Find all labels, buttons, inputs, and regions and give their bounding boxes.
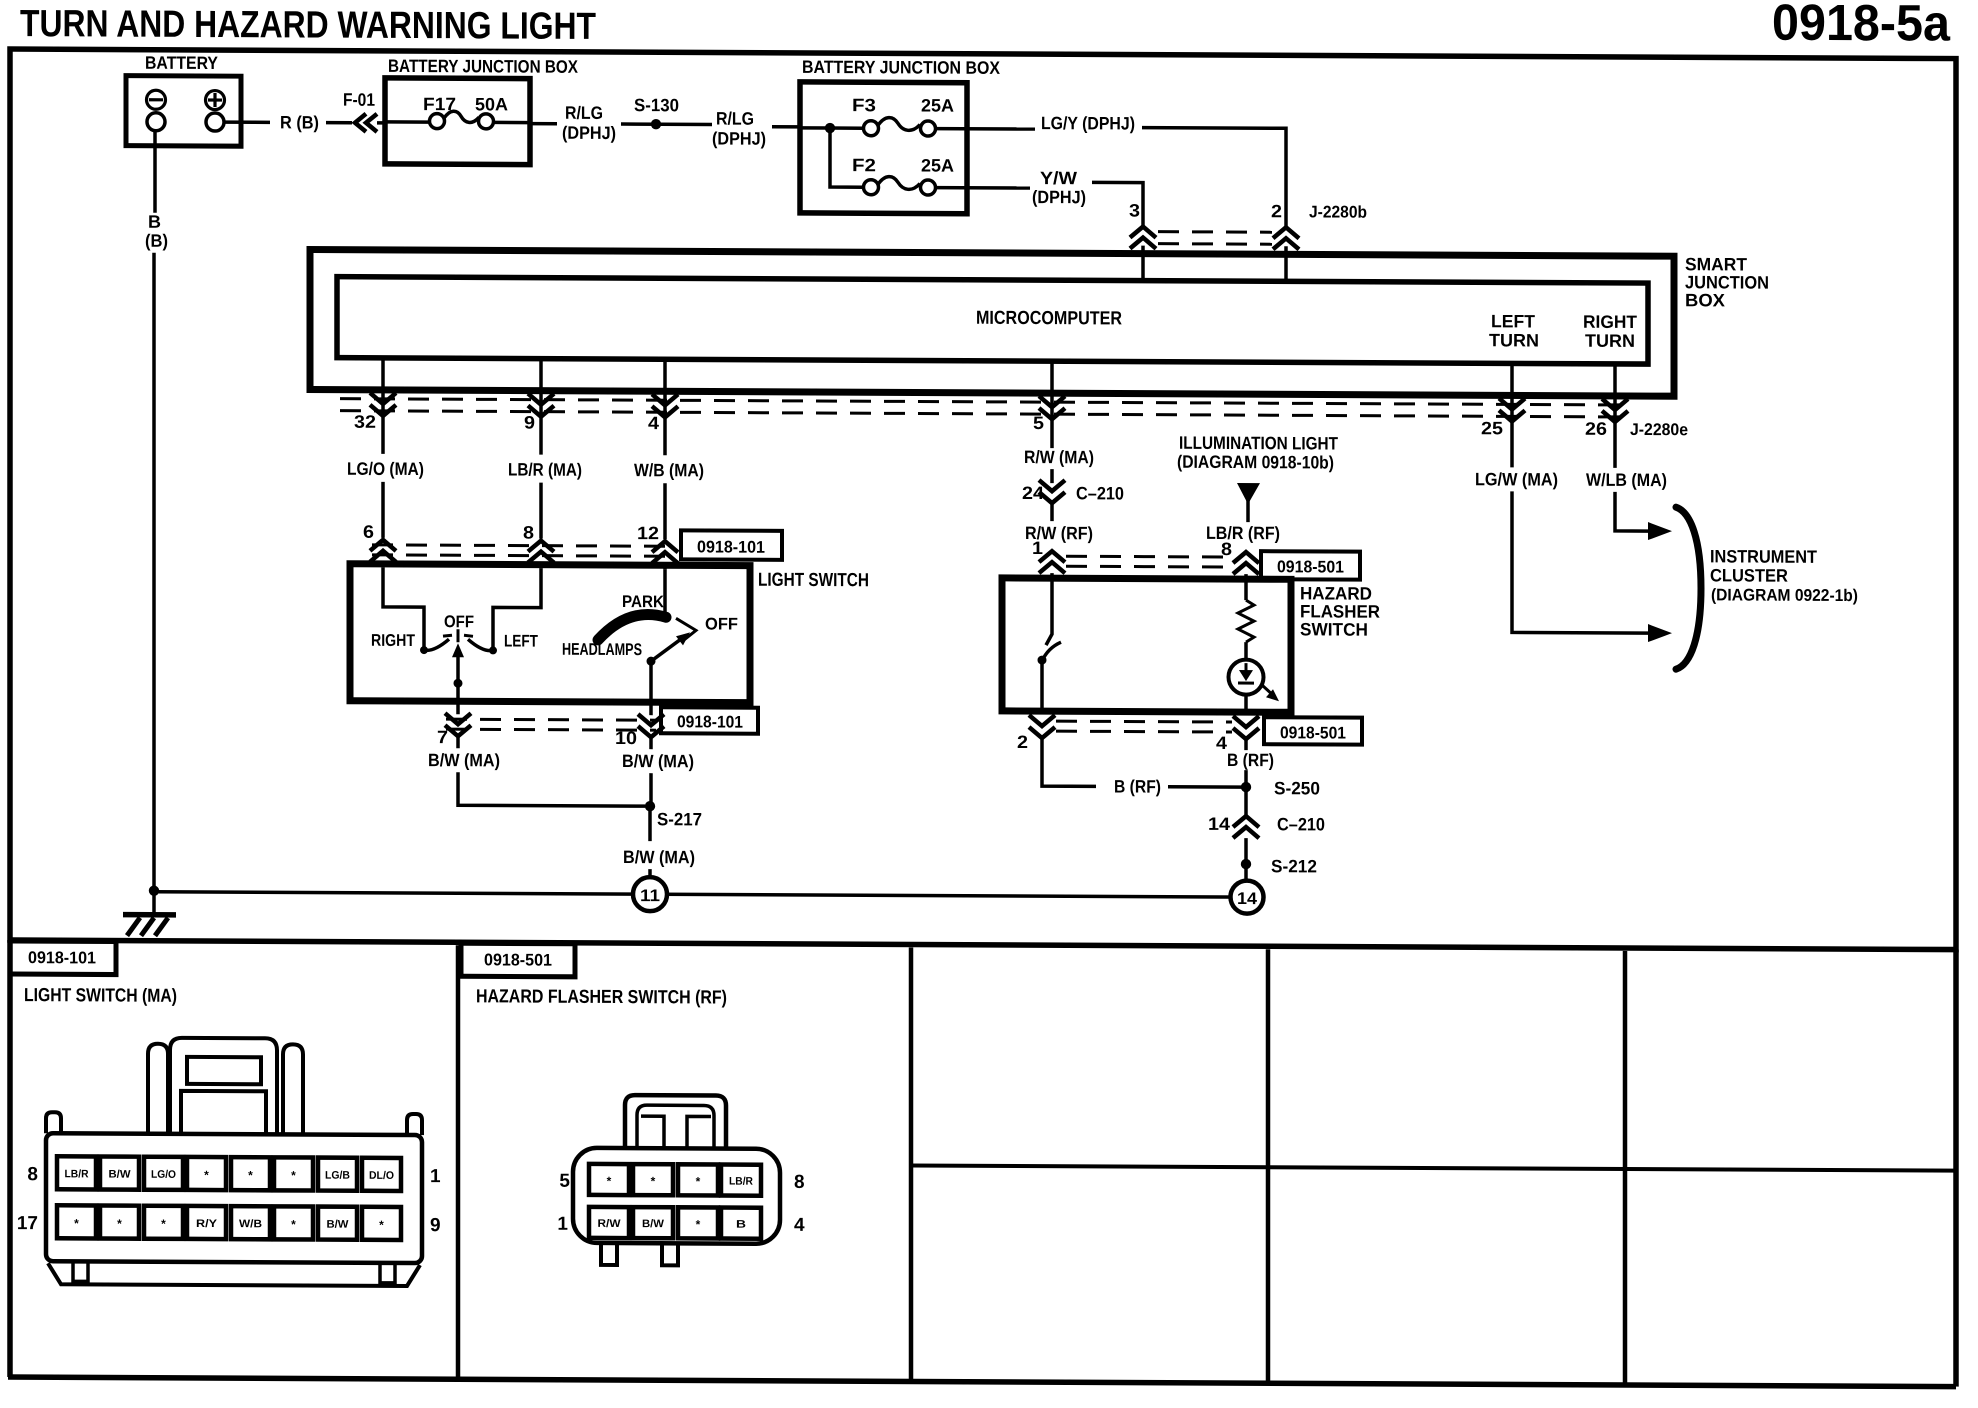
svg-text:*: * [74, 1216, 79, 1230]
ref box 0918-501 bottom band [461, 943, 575, 977]
wire LG/Y to pin 2 corner [1142, 128, 1286, 229]
svg-text:B/W: B/W [108, 1169, 131, 1181]
connector pin 8 chevrons top [1233, 552, 1259, 574]
wire lever to box bottom [649, 661, 653, 705]
svg-text:W/LB (MA): W/LB (MA) [1586, 470, 1667, 490]
hazard switch arm [1042, 642, 1061, 661]
svg-text:SWITCH: SWITCH [1300, 619, 1368, 639]
svg-text:*: * [248, 1168, 253, 1182]
SJB pin 25 chevrons [1499, 398, 1525, 421]
ground bus wire [154, 892, 1247, 897]
svg-text:11: 11 [640, 886, 660, 905]
svg-text:R/LG: R/LG [716, 109, 754, 129]
wire W/LB down to cluster [1615, 492, 1650, 531]
fuse F17 left terminal [430, 114, 445, 129]
SJB pin 9 chevrons [528, 394, 554, 417]
svg-text:*: * [696, 1217, 701, 1231]
svg-text:LB/R: LB/R [65, 1168, 89, 1180]
svg-text:*: * [607, 1174, 612, 1188]
wire Y/W to pin 3 corner [1092, 182, 1143, 227]
headlamp switch PARK-HEADLAMPS crescent [598, 614, 666, 640]
svg-text:OFF: OFF [705, 614, 738, 633]
wire SJB pin 32 stub [381, 358, 385, 416]
svg-text:7: 7 [437, 727, 448, 747]
arrow W/LB to cluster [1648, 522, 1672, 540]
turn switch lower junction dot [454, 679, 463, 688]
wire B/W from pin 10 to splice [649, 773, 653, 806]
svg-text:F2: F2 [852, 155, 876, 175]
wire label LB/R (MA) [539, 417, 543, 455]
MA connector left ear [46, 1112, 61, 1133]
svg-text:(B): (B) [145, 231, 168, 251]
wire pin 8 into hazard box [1244, 574, 1248, 582]
SJB pin 5 chevrons [1039, 396, 1065, 419]
RF connector pin row 1 [589, 1164, 761, 1196]
LED indicator circle [1229, 660, 1264, 695]
wire pin 8 into light switch [539, 563, 543, 569]
svg-text:5: 5 [559, 1171, 570, 1192]
wire F2 out of BJB2 [935, 186, 1030, 190]
instrument cluster bracket [1676, 507, 1701, 669]
svg-text:B: B [736, 1219, 746, 1231]
wire pin6 step inside light switch [383, 568, 424, 647]
svg-text:W/B: W/B [239, 1218, 262, 1230]
fuse F3 element [878, 118, 920, 131]
wire battery negative down upper [153, 131, 157, 213]
MA connector right prong [283, 1044, 303, 1134]
svg-text:LEFT: LEFT [1491, 311, 1535, 331]
turn switch right arc [468, 639, 493, 650]
svg-text:8: 8 [1221, 539, 1232, 559]
svg-text:8: 8 [27, 1164, 38, 1185]
svg-text:*: * [117, 1217, 122, 1231]
turn switch left arc [424, 639, 449, 650]
svg-text:MICROCOMPUTER: MICROCOMPUTER [976, 308, 1122, 330]
wire LG/O to connector [381, 482, 385, 538]
wire pin1 to switch contact [1046, 578, 1052, 645]
svg-text:14: 14 [1208, 814, 1230, 834]
svg-text:3: 3 [1129, 201, 1140, 221]
fuse F2 right terminal [921, 180, 936, 195]
headlamp switch wire 12 into PARK [663, 569, 667, 617]
fuse F17 element [444, 111, 479, 122]
main schematic border frame [10, 49, 1956, 950]
wire to ground circle 11 [648, 869, 652, 881]
MA connector lock window [187, 1057, 261, 1084]
svg-text:25A: 25A [921, 156, 954, 176]
bottom band divider x911 [909, 947, 914, 1381]
wire S-217 down [648, 806, 652, 841]
wire into fuse F17 [385, 120, 429, 124]
wire hazard switch to box bottom [1040, 660, 1044, 714]
microcomputer U1 box [337, 277, 1648, 364]
wire C-210 to R/W RF label [1050, 503, 1054, 521]
headlamp switch lever with arrowhead [651, 638, 682, 661]
svg-text:Y/W: Y/W [1040, 168, 1077, 188]
svg-text:LIGHT SWITCH: LIGHT SWITCH [758, 570, 869, 592]
smart junction box outer [310, 250, 1674, 397]
svg-text:8: 8 [794, 1172, 805, 1193]
headlamp switch OFF tick [676, 618, 696, 642]
wire SJB pin 5 stub [1050, 361, 1054, 419]
svg-text:F3: F3 [852, 95, 876, 115]
connector pin 7 chevrons [445, 713, 471, 736]
fuse F2 element [878, 177, 920, 190]
svg-text:4: 4 [1216, 733, 1227, 753]
svg-text:R/W: R/W [598, 1218, 622, 1230]
RF connector tab slot [641, 1116, 711, 1148]
wire pin 32 to label [381, 416, 385, 454]
svg-text:PARK: PARK [622, 592, 665, 611]
ground circle 11 [633, 877, 667, 911]
svg-text:LG/W (MA): LG/W (MA) [1475, 469, 1558, 489]
wire battery negative down lower [152, 253, 156, 891]
bottom band divider x1268 [1266, 949, 1271, 1383]
svg-text:HEADLAMPS: HEADLAMPS [562, 640, 642, 659]
svg-text:8: 8 [523, 523, 534, 543]
svg-text:25A: 25A [921, 96, 954, 116]
svg-text:LB/R: LB/R [729, 1176, 753, 1188]
wire pin 4 to splice [1244, 770, 1248, 792]
battery junction box 2 [800, 82, 967, 214]
light switch SW1 box [350, 564, 750, 703]
svg-text:R (B): R (B) [280, 112, 319, 132]
svg-text:(DIAGRAM 0918-10b): (DIAGRAM 0918-10b) [1177, 452, 1334, 473]
wire illumination down [1246, 496, 1250, 522]
svg-text:*: * [204, 1168, 209, 1182]
headlamp switch pivot dot [647, 657, 656, 666]
svg-text:24: 24 [1022, 483, 1044, 503]
svg-text:*: * [161, 1217, 166, 1231]
wire pin 2 into SJB [1284, 246, 1288, 282]
svg-text:C–210: C–210 [1076, 483, 1124, 503]
wire battery positive to R (B) label [224, 120, 270, 124]
wire F17 out to box edge [493, 121, 530, 125]
wire F3 out of BJB2 [935, 127, 1035, 131]
svg-text:S-212: S-212 [1271, 856, 1317, 876]
svg-text:TURN AND HAZARD WARNING LIGHT: TURN AND HAZARD WARNING LIGHT [20, 3, 596, 48]
connector pin 4 chevrons [1233, 716, 1259, 739]
svg-text:10: 10 [615, 728, 637, 748]
wire S-212 to ground circle 14 [1244, 864, 1248, 882]
svg-text:LG/O (MA): LG/O (MA) [347, 459, 424, 479]
wire down from junction to F2 [830, 128, 864, 187]
wire into BJB2 junction [800, 126, 830, 130]
svg-text:R/W (MA): R/W (MA) [1024, 447, 1094, 467]
svg-text:B/W (MA): B/W (MA) [428, 750, 500, 770]
svg-text:HAZARD FLASHER SWITCH (RF): HAZARD FLASHER SWITCH (RF) [476, 986, 727, 1008]
MA connector pin row 1 [57, 1156, 401, 1191]
connector pin 12 chevrons [652, 541, 678, 563]
svg-text:B (RF): B (RF) [1114, 776, 1161, 796]
splice S-217 dot [645, 801, 655, 811]
RF connector foot left [601, 1243, 617, 1265]
connector 0918-101 ref box bottom [661, 707, 758, 733]
wire pin 4 stub [1244, 739, 1248, 750]
svg-text:BATTERY JUNCTION BOX: BATTERY JUNCTION BOX [388, 56, 578, 77]
wire pin 10 to label [649, 737, 653, 749]
bottom band right border [1953, 950, 1959, 1387]
svg-text:DL/O: DL/O [369, 1170, 394, 1182]
svg-text:LG/B: LG/B [325, 1170, 350, 1182]
svg-text:LEFT: LEFT [504, 631, 538, 650]
svg-text:BATTERY: BATTERY [145, 53, 218, 73]
wire R/LG to battery junction box 2 [772, 125, 802, 129]
junction dot in BJB2 [825, 123, 835, 133]
arrow LG/W to cluster [1648, 624, 1672, 642]
svg-text:TURN: TURN [1489, 330, 1539, 350]
connector 0918-501 ref box top [1261, 551, 1360, 579]
svg-text:0918-5a: 0918-5a [1772, 0, 1951, 52]
svg-text:9: 9 [430, 1215, 441, 1236]
wire chevron to battery junction box [377, 121, 387, 125]
svg-text:LG/Y (DPHJ): LG/Y (DPHJ) [1041, 113, 1135, 133]
fuse F3 left terminal [864, 121, 879, 136]
fuse F3 right terminal [921, 121, 936, 136]
svg-text:BATTERY JUNCTION BOX: BATTERY JUNCTION BOX [802, 57, 1000, 78]
svg-text:RIGHT: RIGHT [371, 631, 416, 650]
turn switch wiper arrow [456, 654, 460, 684]
fuse F2 left terminal [864, 180, 879, 195]
wire R/LG to S-130 [621, 122, 712, 126]
svg-text:RIGHT: RIGHT [1583, 312, 1637, 332]
wire B RF to splice [1168, 785, 1243, 789]
illumination feed arrow [1237, 483, 1260, 504]
wire wiper to box bottom [456, 683, 460, 704]
ground circle 14 [1231, 881, 1264, 914]
svg-text:LG/O: LG/O [151, 1169, 176, 1181]
svg-text:ILLUMINATION LIGHT: ILLUMINATION LIGHT [1179, 433, 1338, 454]
LED output arrow [1261, 684, 1272, 694]
ref box 0918-101 bottom band [10, 941, 116, 975]
MA connector body [46, 1133, 422, 1263]
MA connector right ear [407, 1114, 422, 1135]
turn switch pivot ticks [443, 635, 452, 636]
svg-text:0918-101: 0918-101 [28, 948, 96, 967]
wire pin 12 into light switch [663, 563, 667, 569]
connector J-2280b dashed lines [1158, 230, 1272, 234]
battery positive terminal [206, 113, 224, 131]
hazard switch pivot dot [1038, 656, 1047, 665]
connector pin 8 chevrons [528, 541, 554, 563]
wire R(B) to F-01 arrows [326, 121, 352, 125]
svg-text:INSTRUMENT: INSTRUMENT [1710, 546, 1817, 567]
wire SJB pin 25 stub [1510, 363, 1514, 421]
wire SJB pin 4 stub [663, 359, 667, 417]
svg-text:*: * [379, 1218, 384, 1232]
F-01 double left chevron [355, 114, 366, 132]
splice S-212 dot [1241, 859, 1251, 869]
wire pin 6 into light switch [381, 562, 385, 568]
wire LB/R to connector [539, 483, 543, 539]
wire pin 10 stub below box [649, 702, 653, 715]
svg-text:6: 6 [363, 522, 374, 542]
bottom band bottom border [8, 1377, 1956, 1387]
SJB pin 26 chevrons [1602, 399, 1628, 422]
MA connector skirt notch left [73, 1261, 88, 1281]
svg-text:25: 25 [1481, 418, 1503, 438]
svg-text:S-130: S-130 [634, 95, 679, 115]
svg-text:0918-501: 0918-501 [1280, 723, 1346, 742]
connector C-210 pin 14 chevrons [1233, 816, 1259, 838]
hazard connector 0918-501 dashed lines top [1066, 555, 1232, 559]
svg-text:2: 2 [1271, 201, 1282, 221]
wire S-250 down [1244, 787, 1248, 818]
light switch connector 0918-101 dashed lines [372, 545, 678, 546]
svg-text:32: 32 [354, 412, 376, 432]
svg-text:C–210: C–210 [1277, 814, 1325, 834]
svg-text:B/W: B/W [642, 1218, 665, 1230]
svg-text:J-2280b: J-2280b [1309, 202, 1367, 221]
wire pin8 step inside light switch [493, 568, 541, 647]
svg-text:TURN: TURN [1585, 331, 1635, 351]
svg-text:LB/R (RF): LB/R (RF) [1206, 523, 1280, 543]
connector pin 2 chevrons [1029, 715, 1055, 738]
RF connector body [573, 1148, 780, 1244]
wire ground stub [152, 891, 156, 913]
connector C-210 pin 24 chevrons [1039, 480, 1065, 503]
RF connector top tab inner [637, 1105, 714, 1148]
wire SJB pin 9 stub [539, 359, 543, 417]
svg-text:(DPHJ): (DPHJ) [562, 123, 616, 143]
ground symbol [123, 912, 176, 918]
wire BJB1 to R/LG label [530, 122, 557, 126]
fuse F17 right terminal [479, 114, 494, 129]
svg-text:2: 2 [1017, 732, 1028, 752]
MA connector left prong [148, 1044, 168, 1134]
svg-text:50A: 50A [475, 94, 508, 114]
svg-text:0918-101: 0918-101 [697, 537, 765, 556]
svg-text:0918-501: 0918-501 [1277, 557, 1344, 576]
connector 0918-101 lower dashed lines [446, 719, 656, 720]
SJB pin 32 chevrons [370, 393, 396, 416]
svg-text:B/W: B/W [327, 1219, 350, 1231]
connector J-2280b pin 3 chevrons [1130, 227, 1156, 249]
hazard lower connector dashed lines [1056, 720, 1232, 724]
connector pin 1 chevrons [1039, 551, 1065, 573]
svg-text:26: 26 [1585, 419, 1607, 439]
wire LG/W down to cluster [1512, 491, 1650, 633]
left contact dot [420, 646, 428, 654]
svg-text:R/Y: R/Y [196, 1218, 218, 1230]
svg-text:(DPHJ): (DPHJ) [1032, 187, 1086, 207]
svg-text:B (RF): B (RF) [1227, 750, 1274, 770]
wire R/W to C-210 [1050, 469, 1054, 483]
bottom band divider x1625 [1623, 951, 1628, 1385]
svg-text:*: * [291, 1217, 296, 1231]
wire pin 25 to label [1510, 421, 1514, 467]
wire label W/B (MA) [663, 417, 667, 455]
MA connector pin row 2 [57, 1205, 401, 1240]
svg-text:S-250: S-250 [1274, 778, 1320, 798]
bottom band left cell border [7, 940, 13, 1377]
SJB pin 4 chevrons [652, 394, 678, 417]
battery plus symbol [206, 91, 225, 110]
MA connector bottom skirt [48, 1263, 420, 1286]
battery junction box 1 [385, 78, 530, 165]
svg-text:F-01: F-01 [343, 90, 375, 110]
resistor R1 zigzag [1238, 600, 1254, 642]
wire pin 1 into hazard box [1050, 573, 1054, 581]
RF connector pin row 2 [589, 1207, 761, 1239]
svg-text:R/LG: R/LG [565, 103, 603, 123]
wire resistor to LED [1244, 642, 1248, 661]
svg-text:B: B [148, 212, 161, 232]
LED symbol [1245, 663, 1248, 671]
splice S-130 dot [651, 119, 661, 129]
RF connector foot right [662, 1243, 678, 1265]
ground junction dot [149, 886, 159, 896]
wire pin 26 to label [1613, 422, 1617, 468]
battery BT1 box [126, 76, 241, 147]
wire pin 5 to R/W label [1050, 419, 1054, 448]
hazard flasher switch SW2 box [1002, 578, 1291, 712]
bottom band divider x458 [456, 945, 461, 1379]
resistor R1 wire stub [1244, 579, 1248, 600]
svg-text:S-217: S-217 [657, 809, 702, 829]
svg-text:5: 5 [1033, 413, 1044, 433]
svg-text:(DPHJ): (DPHJ) [712, 128, 766, 148]
svg-text:9: 9 [524, 413, 535, 433]
wire SJB pin 26 stub [1613, 364, 1617, 422]
connector pin 6 chevrons [370, 540, 396, 562]
svg-text:(DIAGRAM 0922-1b): (DIAGRAM 0922-1b) [1711, 585, 1858, 605]
splice S-250 dot [1241, 782, 1251, 792]
wire pin 7 stub below box [456, 701, 460, 714]
wire C-210 to S-212 [1244, 838, 1248, 864]
svg-text:0918-501: 0918-501 [484, 950, 552, 969]
svg-text:LIGHT SWITCH (MA): LIGHT SWITCH (MA) [24, 985, 177, 1007]
svg-text:*: * [696, 1174, 701, 1188]
wire pin 3 into SJB [1141, 246, 1145, 282]
svg-text:W/B (MA): W/B (MA) [634, 460, 704, 480]
right contact dot [489, 646, 497, 654]
svg-text:*: * [651, 1174, 656, 1188]
battery negative terminal [147, 113, 165, 131]
battery minus symbol [147, 90, 166, 109]
connector 0918-101 ref box top [681, 530, 782, 559]
svg-text:CLUSTER: CLUSTER [1710, 565, 1788, 585]
svg-text:14: 14 [1237, 889, 1258, 908]
wire junction to fuse F3 [830, 126, 864, 130]
wire B/W jog from pin 7 to splice [458, 772, 645, 806]
svg-text:17: 17 [17, 1213, 38, 1234]
RF connector top tab outer [625, 1095, 726, 1148]
svg-text:B/W (MA): B/W (MA) [622, 751, 694, 771]
svg-text:4: 4 [794, 1215, 805, 1236]
svg-text:0918-101: 0918-101 [677, 712, 743, 731]
wire pin 7 to label [456, 736, 460, 748]
svg-text:1: 1 [1032, 538, 1043, 558]
connector 0918-501 ref box bottom [1264, 717, 1362, 744]
svg-text:BOX: BOX [1685, 290, 1725, 310]
svg-text:B/W (MA): B/W (MA) [623, 847, 695, 867]
connector pin 10 chevrons [638, 714, 664, 737]
svg-text:12: 12 [637, 523, 659, 543]
SJB bottom connector dashed lines [340, 399, 1628, 405]
bottom band horizontal divider [911, 1165, 1956, 1170]
wire W/B to connector [663, 483, 667, 539]
connector J-2280b pin 2 chevrons [1273, 227, 1299, 249]
wire pin 2 down and right [1042, 738, 1096, 786]
MA connector center bracket [170, 1038, 277, 1135]
MA connector skirt notch right [380, 1263, 395, 1283]
svg-text:1: 1 [557, 1214, 568, 1235]
svg-text:4: 4 [648, 413, 659, 433]
svg-text:LB/R (MA): LB/R (MA) [508, 459, 582, 479]
svg-text:*: * [291, 1168, 296, 1182]
svg-text:1: 1 [430, 1166, 441, 1187]
